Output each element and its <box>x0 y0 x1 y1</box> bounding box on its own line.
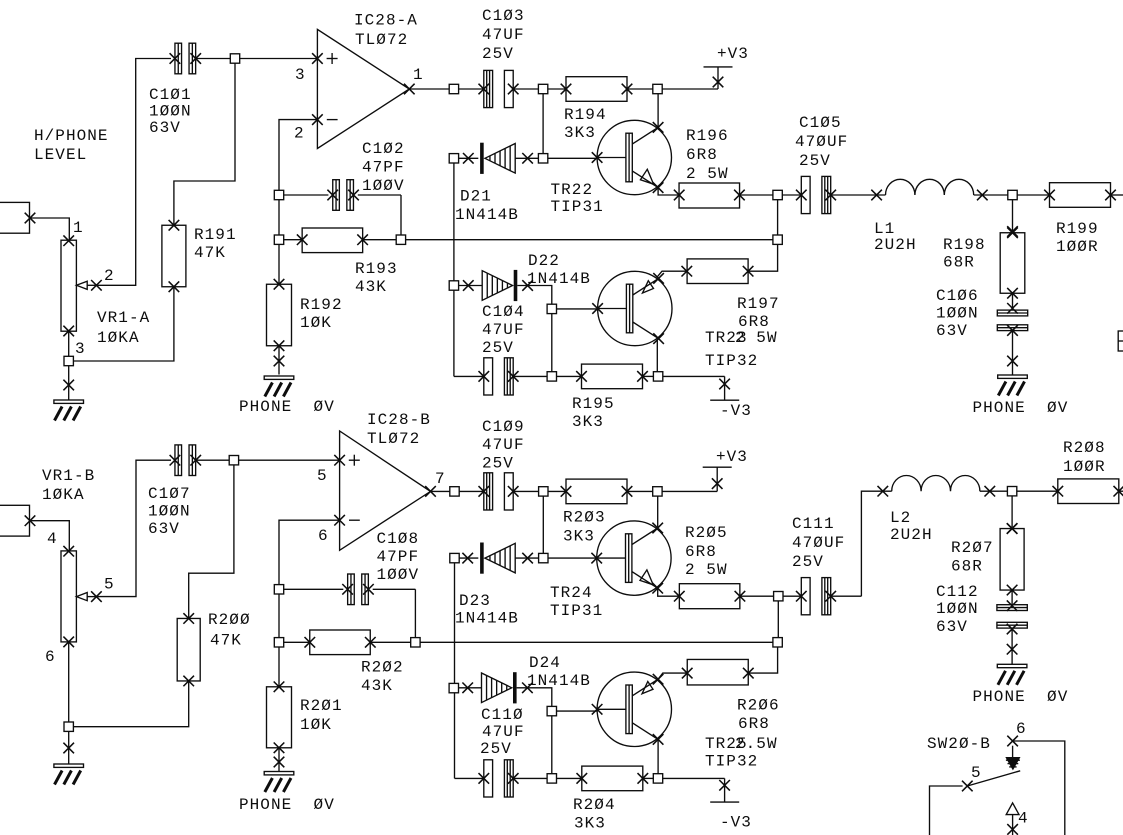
svg-text:63V: 63V <box>936 618 968 636</box>
ground VR1-A <box>54 366 84 421</box>
svg-text:1ØØV: 1ØØV <box>362 177 405 195</box>
resistor R201 <box>267 647 292 753</box>
label C104 47UF 25V <box>482 303 525 357</box>
svg-text:6R8: 6R8 <box>685 543 717 561</box>
svg-text:47UF: 47UF <box>482 321 525 339</box>
resistor R208 <box>1017 479 1123 504</box>
svg-text:R191: R191 <box>194 226 237 244</box>
svg-text:C1Ø4: C1Ø4 <box>482 303 525 321</box>
svg-text:R192: R192 <box>300 296 343 314</box>
capacitor C103 <box>459 70 539 107</box>
label R208 100R <box>1063 439 1106 476</box>
wire feedback A (R193 to output node) <box>406 239 773 241</box>
svg-text:3K3: 3K3 <box>572 413 604 431</box>
svg-text:1ØØR: 1ØØR <box>1063 458 1106 476</box>
label C102 47PF 100V <box>362 140 405 195</box>
svg-text:47UF: 47UF <box>482 26 525 44</box>
svg-text:25V: 25V <box>482 455 514 473</box>
wire op-amp A output <box>409 84 458 93</box>
svg-text:R194: R194 <box>564 106 607 124</box>
pin label 2 (op-amp A -) <box>294 125 305 143</box>
capacitor C108 <box>274 574 415 638</box>
label VR1-A 10KA <box>97 309 150 347</box>
label R203 3K3 <box>563 509 606 546</box>
svg-text:47PF: 47PF <box>377 548 420 566</box>
pin label 6 (SW20-B) <box>1016 720 1027 738</box>
label R205 6R8 2 5W <box>685 524 728 579</box>
svg-text:TIP32: TIP32 <box>705 352 758 370</box>
svg-text:R2ØØ: R2ØØ <box>208 611 251 629</box>
svg-text:C11Ø: C11Ø <box>481 706 524 724</box>
svg-text:1ØØN: 1ØØN <box>936 600 979 618</box>
power +V3 (B) <box>662 448 748 491</box>
wire TR25 collector <box>657 739 659 773</box>
svg-text:6: 6 <box>45 648 56 666</box>
svg-text:6R8: 6R8 <box>738 313 770 331</box>
ground R192 (PHONE 0V) <box>239 346 335 416</box>
svg-text:63V: 63V <box>936 322 968 340</box>
svg-text:1ØØN: 1ØØN <box>148 503 191 521</box>
node square C103/D21 rail <box>538 84 547 163</box>
wire TR24 emitter to R205 <box>658 588 680 596</box>
diode D22 1N4148 row <box>449 270 552 304</box>
power -V3 (B) <box>663 778 752 831</box>
label C105 470UF 25V <box>795 114 848 170</box>
pin label 6 (op-amp B -) <box>318 527 329 545</box>
resistor R193 <box>274 228 405 253</box>
svg-text:R2Ø5: R2Ø5 <box>685 524 728 542</box>
svg-text:3: 3 <box>75 340 86 358</box>
capacitor C102 <box>274 180 401 235</box>
svg-text:25V: 25V <box>480 740 512 758</box>
svg-text:PHONE ØV: PHONE ØV <box>239 398 335 416</box>
capacitor C101 <box>170 43 201 74</box>
svg-text:25V: 25V <box>799 152 831 170</box>
svg-text:1ØØV: 1ØØV <box>377 566 420 584</box>
resistor R207 <box>1000 523 1024 595</box>
resistor R192 <box>267 244 292 351</box>
node TR23 base tap <box>547 304 597 381</box>
svg-text:1ØK: 1ØK <box>300 314 332 332</box>
resistor R204 <box>557 766 663 791</box>
svg-text:6: 6 <box>1016 720 1027 738</box>
svg-text:PHONE ØV: PHONE ØV <box>973 688 1069 706</box>
svg-text:+V3: +V3 <box>717 45 749 63</box>
svg-text:R2Ø2: R2Ø2 <box>361 659 404 677</box>
capacitor C111 <box>783 578 861 615</box>
svg-text:TR24: TR24 <box>550 584 593 602</box>
label IC28-A TL072 <box>354 12 418 50</box>
pin label 2 <box>104 267 115 285</box>
label C107 100N 63V <box>148 485 191 538</box>
svg-text:PHONE ØV: PHONE ØV <box>973 399 1069 417</box>
label 4 (SW20-B) <box>1018 810 1029 828</box>
svg-text:1N414B: 1N414B <box>527 672 591 690</box>
svg-text:C1Ø6: C1Ø6 <box>936 287 979 305</box>
wire TR25 emitter to R206 <box>658 673 687 679</box>
label R195 3K3 <box>572 395 615 431</box>
switch SW20-B contact <box>1005 746 1020 771</box>
pin label 3 <box>75 340 86 358</box>
svg-text:25V: 25V <box>482 45 514 63</box>
resistor R199 <box>1017 183 1123 208</box>
resistor R195 <box>557 364 663 389</box>
svg-text:2 5W: 2 5W <box>685 561 728 579</box>
label TR24 TIP31 <box>550 584 603 620</box>
svg-text:43K: 43K <box>361 677 393 695</box>
svg-text:TIP31: TIP31 <box>551 198 604 216</box>
svg-text:2: 2 <box>104 267 115 285</box>
label R206 6R8 <box>737 697 780 734</box>
svg-text:R2Ø3: R2Ø3 <box>563 509 606 527</box>
connector pin (right edge) <box>1118 331 1123 351</box>
svg-text:D21: D21 <box>460 188 492 206</box>
svg-text:68R: 68R <box>943 254 975 272</box>
svg-text:2U2H: 2U2H <box>890 526 933 544</box>
svg-text:C1Ø9: C1Ø9 <box>482 418 525 436</box>
connector pin (H/PHONE input A) <box>0 202 35 233</box>
svg-text:H/PHONE: H/PHONE <box>34 127 109 145</box>
label TR25 2.5W TIP32 <box>705 735 778 771</box>
label TR23 2 5W TIP32 <box>705 329 778 370</box>
op-amp U1 IC28-A <box>312 29 415 148</box>
svg-text:D24: D24 <box>529 654 561 672</box>
left rail A (output to C104) <box>453 163 455 376</box>
capacitor C104 <box>454 358 547 395</box>
resistor R197 <box>682 244 778 283</box>
svg-text:LEVEL: LEVEL <box>34 146 87 164</box>
label R193 43K <box>355 260 398 296</box>
svg-text:47UF: 47UF <box>482 723 525 741</box>
label L1 2U2H <box>874 220 917 254</box>
svg-text:4: 4 <box>47 530 58 548</box>
wire node to R191 <box>174 63 235 225</box>
svg-text:2: 2 <box>294 125 305 143</box>
pin label 5 (op-amp B +) <box>317 467 328 485</box>
svg-text:1N414B: 1N414B <box>455 206 519 224</box>
capacitor C110 <box>455 760 548 797</box>
svg-text:PHONE ØV: PHONE ØV <box>239 796 335 814</box>
svg-text:R2Ø8: R2Ø8 <box>1063 439 1106 457</box>
svg-text:25V: 25V <box>792 553 824 571</box>
svg-text:3K3: 3K3 <box>563 528 595 546</box>
node square L2/R207 <box>1007 487 1016 528</box>
label C109 47UF 25V <box>482 418 525 473</box>
label IC28-B TL072 <box>367 411 431 448</box>
svg-text:3K3: 3K3 <box>574 815 606 833</box>
ground C106 (PHONE 0V) <box>973 331 1069 418</box>
svg-text:R199: R199 <box>1056 220 1099 238</box>
svg-text:1: 1 <box>413 66 424 84</box>
label C110 47UF 25V <box>480 706 525 758</box>
svg-text:1: 1 <box>73 219 84 237</box>
svg-text:D22: D22 <box>528 252 560 270</box>
svg-text:L2: L2 <box>890 509 911 527</box>
potentiometer VR1-A <box>61 235 102 336</box>
svg-text:63V: 63V <box>149 119 181 137</box>
wire TR23 collector <box>656 339 658 372</box>
capacitor C107 <box>170 445 201 476</box>
svg-text:R195: R195 <box>572 395 615 413</box>
label R201 10K <box>300 697 343 734</box>
resistor R203 <box>548 479 662 504</box>
transistor Q TR23 TIP32 <box>592 271 672 345</box>
svg-text:IC28-A: IC28-A <box>354 12 418 30</box>
svg-text:C112: C112 <box>936 583 979 601</box>
svg-text:C1Ø5: C1Ø5 <box>799 114 842 132</box>
diode D23 1N4148 row <box>450 543 597 574</box>
connector pin (H/PHONE input B) <box>0 505 35 536</box>
svg-text:3: 3 <box>295 66 306 84</box>
resistor R194 <box>548 77 662 102</box>
svg-text:5: 5 <box>104 576 115 594</box>
capacitor C106 <box>997 293 1027 336</box>
svg-text:5: 5 <box>317 467 328 485</box>
power -V3 (A) <box>663 376 752 420</box>
label R202 43K <box>361 659 404 696</box>
svg-text:5: 5 <box>971 764 982 782</box>
pin label 6 <box>45 648 56 666</box>
svg-text:47ØUF: 47ØUF <box>795 133 848 151</box>
svg-text:1ØKA: 1ØKA <box>97 329 140 347</box>
svg-text:IC28-B: IC28-B <box>367 411 431 429</box>
resistor R196 <box>674 183 773 208</box>
capacitor C112 <box>997 590 1027 634</box>
left rail B (output to C110) <box>454 563 456 779</box>
wire pin6 to inverting rail <box>279 520 340 584</box>
svg-text:R196: R196 <box>686 127 729 145</box>
wire VR1-A wiper to C101 <box>96 59 171 286</box>
switch SW20-B pin 5 <box>930 781 973 835</box>
svg-text:63V: 63V <box>148 520 180 538</box>
label VR1-B 10KA <box>42 467 95 504</box>
svg-text:1N414B: 1N414B <box>527 270 591 288</box>
label D22 1N4148 <box>527 252 591 288</box>
svg-text:VR1-A: VR1-A <box>97 309 150 327</box>
ground R201 (PHONE 0V) <box>239 748 335 814</box>
wire feedback B (R202 to output node) <box>420 641 773 643</box>
wire TR24 collector <box>657 496 659 528</box>
svg-text:-V3: -V3 <box>720 814 752 832</box>
wire inverting rail B segment <box>278 594 280 638</box>
label R198 68R <box>943 236 986 272</box>
svg-text:+V3: +V3 <box>716 448 748 466</box>
inductor L1 <box>871 179 1008 200</box>
pin label 3 (op-amp A +) <box>295 66 306 84</box>
wire TR22 collector <box>657 94 659 128</box>
resistor R202 <box>274 630 420 655</box>
svg-text:2U2H: 2U2H <box>874 236 917 254</box>
svg-text:C1Ø2: C1Ø2 <box>362 140 405 158</box>
transistor Q TR25 TIP32 <box>592 672 672 746</box>
resistor R191 <box>162 220 186 292</box>
ground C112 (PHONE 0V) <box>973 629 1069 706</box>
label C101 100N 63V <box>149 86 192 137</box>
inductor L2 <box>878 476 1008 497</box>
label R197 6R8 <box>737 295 780 331</box>
label R191 47K <box>194 226 237 262</box>
svg-text:2 5W: 2 5W <box>686 165 729 183</box>
wire input A to VR1-A pin1 <box>30 218 69 241</box>
svg-text:R2Ø6: R2Ø6 <box>737 697 780 715</box>
output node B square <box>773 592 783 648</box>
svg-text:R2Ø7: R2Ø7 <box>951 539 994 557</box>
svg-text:TIP31: TIP31 <box>550 602 603 620</box>
pin label 1 <box>73 219 84 237</box>
switch SW20-B lever <box>967 771 1020 786</box>
label D23 1N4148 <box>455 592 519 628</box>
label C111 470UF 25V <box>792 515 845 571</box>
transistor Q TR24 TIP31 <box>591 521 671 595</box>
pin label 7 (op-amp B out) <box>435 470 446 488</box>
output node A square <box>773 190 782 244</box>
label C108 47PF 100V <box>377 530 420 584</box>
svg-text:C1Ø1: C1Ø1 <box>149 86 192 104</box>
svg-text:R198: R198 <box>943 236 986 254</box>
wire C107 to op-amp pin5 <box>196 456 339 465</box>
label L2 2U2H <box>890 509 933 544</box>
label R204 3K3 <box>573 796 616 833</box>
svg-text:TIP32: TIP32 <box>705 753 758 771</box>
svg-text:47K: 47K <box>194 244 226 262</box>
potentiometer VR1-B <box>61 546 102 647</box>
node square C109/D23 rail <box>539 487 548 563</box>
wire VR1-B wiper to C107 <box>96 460 171 596</box>
svg-text:C1Ø7: C1Ø7 <box>148 485 191 503</box>
wire op-amp B output <box>431 487 460 496</box>
wire VR1-B pin6 to node <box>64 642 189 732</box>
svg-text:6R8: 6R8 <box>738 715 770 733</box>
svg-text:C1Ø3: C1Ø3 <box>482 7 525 25</box>
svg-text:1ØK: 1ØK <box>300 716 332 734</box>
label SW20-B <box>927 735 991 753</box>
resistor R206 <box>682 647 778 685</box>
label R199 100R <box>1056 220 1099 256</box>
svg-text:R193: R193 <box>355 260 398 278</box>
wire pin2 to inverting rail <box>279 120 317 191</box>
resistor R205 <box>674 584 774 609</box>
svg-text:VR1-B: VR1-B <box>42 467 95 485</box>
power +V3 (A) <box>662 45 749 89</box>
svg-text:C1Ø8: C1Ø8 <box>377 530 420 548</box>
label C103 47UF 25V <box>482 7 525 63</box>
svg-text:1ØØR: 1ØØR <box>1056 238 1099 256</box>
wire node to R200 <box>189 465 234 619</box>
svg-text:47K: 47K <box>210 632 242 650</box>
svg-text:25V: 25V <box>482 339 514 357</box>
label C112 100N 63V <box>936 583 979 636</box>
svg-text:2 5W: 2 5W <box>735 329 778 347</box>
svg-text:1ØØN: 1ØØN <box>149 103 192 121</box>
svg-text:68R: 68R <box>951 558 983 576</box>
svg-text:-V3: -V3 <box>720 402 752 420</box>
svg-text:47PF: 47PF <box>362 159 405 177</box>
svg-text:1N414B: 1N414B <box>455 610 519 628</box>
label H/PHONE LEVEL <box>34 127 109 164</box>
pin label 1 (op-amp A out) <box>413 66 424 84</box>
svg-text:7: 7 <box>435 470 446 488</box>
label R192 10K <box>300 296 343 332</box>
svg-text:TLØ72: TLØ72 <box>355 31 408 49</box>
svg-text:47UF: 47UF <box>482 436 525 454</box>
wire C101 to op-amp pin3 <box>196 54 317 63</box>
svg-text:1ØØN: 1ØØN <box>936 305 979 323</box>
wire input B to VR1-B pin4 <box>30 521 69 551</box>
node square L1/R198 <box>1008 190 1017 231</box>
svg-text:47ØUF: 47ØUF <box>792 534 845 552</box>
transistor Q TR22 TIP31 <box>592 120 672 194</box>
wire TR22 emitter to R196 <box>658 188 679 195</box>
wire TR23 emitter to R197 <box>657 271 686 277</box>
svg-text:6R8: 6R8 <box>686 146 718 164</box>
op-amp U2 IC28-B <box>334 431 436 550</box>
label TR22 TIP31 <box>551 181 604 216</box>
capacitor C109 <box>459 473 538 510</box>
label R207 68R <box>951 539 994 576</box>
wire C111 to L2 <box>861 491 891 596</box>
switch SW20-B pin 6 <box>1007 736 1065 835</box>
pin label 5 <box>104 576 115 594</box>
svg-text:3K3: 3K3 <box>564 124 596 142</box>
diode D24 1N4148 row <box>449 672 552 706</box>
svg-text:R2Ø1: R2Ø1 <box>300 697 343 715</box>
diode D21 1N4148 row <box>449 143 597 174</box>
label R196 6R8 2 5W <box>686 127 729 183</box>
pin label 4 <box>47 530 58 548</box>
label D21 1N4148 <box>455 188 519 225</box>
svg-text:2.5W: 2.5W <box>735 735 778 753</box>
ground VR1-B <box>54 731 84 784</box>
switch SW20-B pin 4 <box>1006 803 1019 835</box>
node TR25 base tap <box>547 706 597 783</box>
label R194 3K3 <box>564 106 607 142</box>
svg-text:R197: R197 <box>737 295 780 313</box>
label C106 100N 63V <box>936 287 979 340</box>
resistor R200 <box>177 613 200 686</box>
label R200 47K <box>208 611 251 650</box>
resistor R198 <box>1000 226 1025 298</box>
svg-text:D23: D23 <box>459 592 491 610</box>
svg-text:4: 4 <box>1018 810 1029 828</box>
svg-text:TR22: TR22 <box>551 181 594 199</box>
label 5 (SW20-B) <box>971 764 982 782</box>
wire VR1-A pin3 to node <box>64 287 174 365</box>
svg-text:TLØ72: TLØ72 <box>367 430 420 448</box>
capacitor C105 <box>782 176 885 213</box>
svg-text:SW2Ø-B: SW2Ø-B <box>927 735 991 753</box>
label D24 1N4148 <box>527 654 591 690</box>
svg-text:C111: C111 <box>792 515 835 533</box>
svg-text:1ØKA: 1ØKA <box>42 486 85 504</box>
svg-text:43K: 43K <box>355 278 387 296</box>
svg-text:6: 6 <box>318 527 329 545</box>
wire inverting rail A segment <box>278 200 280 235</box>
svg-text:R2Ø4: R2Ø4 <box>573 796 616 814</box>
